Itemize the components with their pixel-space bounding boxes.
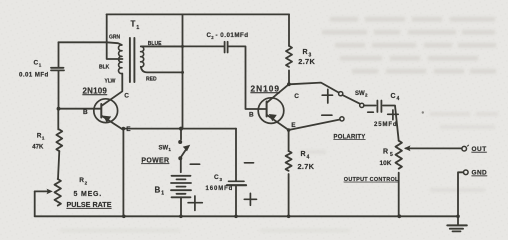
svg-text:BLK: BLK — [99, 64, 110, 70]
svg-text:PULSE RATE: PULSE RATE — [67, 200, 112, 209]
svg-text:C: C — [294, 93, 299, 100]
svg-text:R: R — [383, 149, 388, 156]
svg-text:2.7K: 2.7K — [298, 162, 315, 171]
svg-text:- 0.01MFd: - 0.01MFd — [216, 32, 249, 39]
svg-text:47K: 47K — [32, 144, 44, 150]
svg-text:BLUE: BLUE — [148, 41, 162, 47]
svg-text:4: 4 — [307, 155, 310, 161]
svg-text:4: 4 — [397, 96, 400, 102]
svg-text:2.7K: 2.7K — [298, 57, 315, 66]
svg-text:OUT: OUT — [472, 146, 487, 153]
svg-text:E: E — [126, 126, 131, 133]
svg-text:B: B — [155, 185, 161, 194]
svg-text:5: 5 — [390, 152, 393, 158]
svg-text:1: 1 — [161, 190, 164, 196]
svg-text:GND: GND — [472, 170, 488, 177]
svg-text:C: C — [124, 93, 129, 100]
svg-text:2N109: 2N109 — [251, 83, 280, 93]
svg-text:E: E — [291, 122, 296, 129]
svg-text:2N109: 2N109 — [83, 86, 108, 95]
svg-text:R: R — [303, 49, 308, 56]
svg-text:R: R — [79, 177, 84, 184]
svg-text:5 MEG.: 5 MEG. — [74, 191, 103, 198]
svg-text:T: T — [131, 20, 136, 29]
svg-text:C: C — [34, 59, 39, 66]
svg-text:RED: RED — [146, 77, 157, 83]
svg-text:0.01 MFd: 0.01 MFd — [19, 71, 49, 78]
svg-text:B: B — [83, 109, 88, 116]
svg-text:10K: 10K — [380, 160, 392, 167]
svg-text:OUTPUT CONTROL: OUTPUT CONTROL — [344, 177, 399, 183]
svg-text:25MFd: 25MFd — [374, 122, 398, 128]
svg-text:C: C — [391, 93, 396, 100]
svg-text:SW: SW — [159, 145, 169, 151]
svg-text:R: R — [301, 151, 306, 158]
svg-text:1: 1 — [136, 25, 139, 31]
svg-text:GRN: GRN — [109, 34, 121, 40]
svg-text:YLW: YLW — [105, 79, 116, 85]
svg-text:SW: SW — [355, 91, 365, 97]
svg-text:POLARITY: POLARITY — [334, 134, 366, 140]
svg-text:POWER: POWER — [141, 157, 169, 164]
svg-text:C: C — [214, 174, 219, 181]
svg-text:B: B — [249, 112, 254, 119]
svg-text:160MFd: 160MFd — [206, 186, 234, 192]
